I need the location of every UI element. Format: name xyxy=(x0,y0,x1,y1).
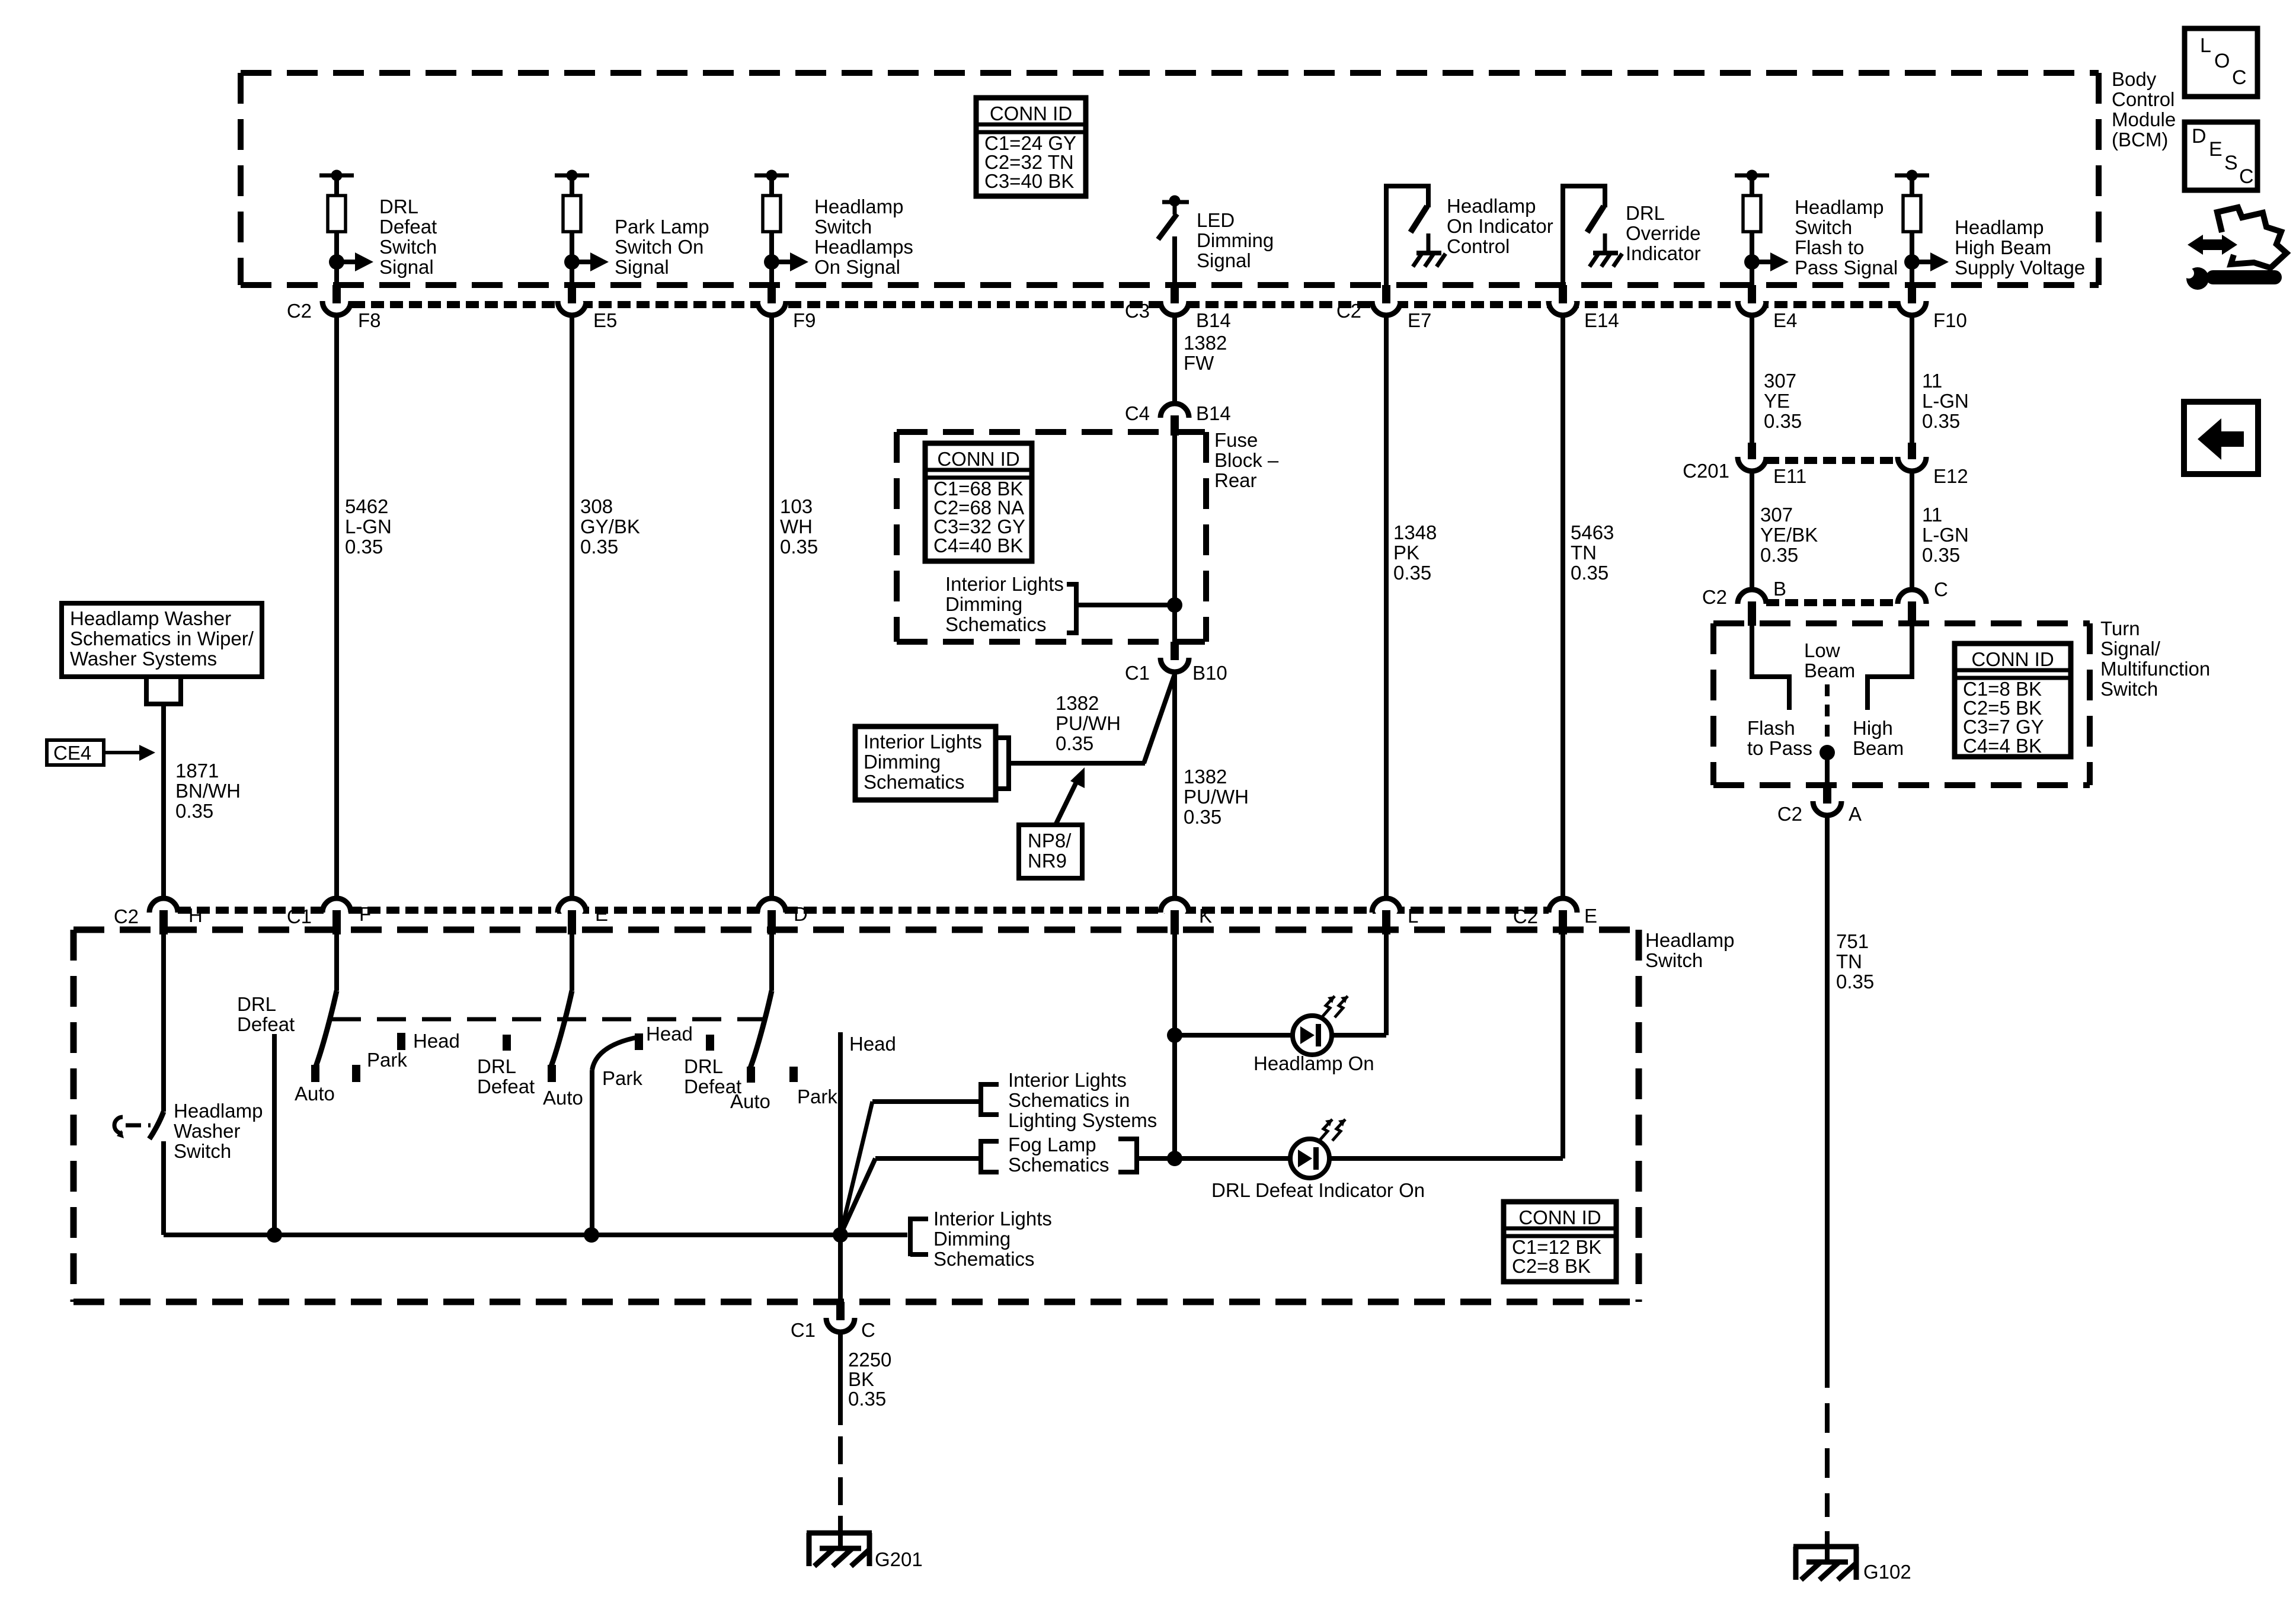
svg-text:Headlamp: Headlamp xyxy=(174,1100,263,1122)
svg-text:E7: E7 xyxy=(1408,309,1431,331)
svg-text:Headlamps: Headlamps xyxy=(814,236,913,258)
svg-text:DRL: DRL xyxy=(684,1055,723,1077)
svg-text:C4=4 BK: C4=4 BK xyxy=(1963,735,2042,757)
svg-text:D: D xyxy=(794,903,808,925)
svg-text:0.35: 0.35 xyxy=(1760,544,1798,566)
svg-text:Lighting Systems: Lighting Systems xyxy=(1008,1109,1157,1131)
svg-text:FW: FW xyxy=(1184,352,1214,374)
svg-text:Dimming: Dimming xyxy=(864,751,941,773)
svg-text:E5: E5 xyxy=(593,309,617,331)
svg-text:Interior Lights: Interior Lights xyxy=(933,1208,1052,1230)
svg-text:0.35: 0.35 xyxy=(848,1388,886,1410)
svg-text:to Pass: to Pass xyxy=(1747,737,1812,759)
svg-text:Switch: Switch xyxy=(1795,216,1852,238)
svg-text:Schematics: Schematics xyxy=(864,771,965,793)
svg-text:C: C xyxy=(2239,165,2254,188)
svg-text:C3: C3 xyxy=(1125,300,1150,322)
svg-text:Override: Override xyxy=(1626,222,1701,244)
svg-text:WH: WH xyxy=(780,516,813,537)
svg-text:0.35: 0.35 xyxy=(1922,544,1960,566)
svg-text:F9: F9 xyxy=(793,309,816,331)
svg-text:Headlamp: Headlamp xyxy=(1795,196,1884,218)
svg-text:0.35: 0.35 xyxy=(1056,732,1093,754)
svg-text:E12: E12 xyxy=(1933,465,1968,487)
svg-text:(BCM): (BCM) xyxy=(2112,129,2168,151)
svg-text:L: L xyxy=(1408,905,1418,927)
svg-text:Auto: Auto xyxy=(730,1090,770,1112)
svg-text:S: S xyxy=(2224,152,2238,174)
svg-text:Multifunction: Multifunction xyxy=(2100,658,2210,680)
svg-text:On Indicator: On Indicator xyxy=(1447,215,1553,237)
svg-text:Head: Head xyxy=(849,1033,896,1055)
svg-text:F: F xyxy=(359,903,371,925)
svg-text:5463: 5463 xyxy=(1571,521,1614,543)
svg-text:Rear: Rear xyxy=(1214,469,1257,491)
svg-text:PU/WH: PU/WH xyxy=(1184,786,1249,808)
svg-text:Switch On: Switch On xyxy=(615,236,703,258)
svg-text:C4=40 BK: C4=40 BK xyxy=(933,534,1023,556)
svg-text:E4: E4 xyxy=(1773,309,1797,331)
svg-text:Schematics: Schematics xyxy=(1008,1154,1109,1176)
svg-text:Switch: Switch xyxy=(1645,949,1703,971)
svg-text:0.35: 0.35 xyxy=(175,800,213,822)
svg-text:C: C xyxy=(2232,66,2247,89)
svg-text:0.35: 0.35 xyxy=(1184,806,1221,828)
svg-text:307: 307 xyxy=(1760,504,1793,526)
svg-text:High: High xyxy=(1853,717,1893,739)
svg-text:Schematics in Wiper/: Schematics in Wiper/ xyxy=(70,628,254,649)
svg-text:Defeat: Defeat xyxy=(477,1076,535,1097)
svg-text:O: O xyxy=(2214,50,2230,72)
svg-text:F10: F10 xyxy=(1933,309,1967,331)
svg-text:E11: E11 xyxy=(1773,465,1806,487)
svg-text:TN: TN xyxy=(1836,950,1862,972)
svg-text:C2: C2 xyxy=(114,905,139,927)
svg-text:11: 11 xyxy=(1922,370,1942,392)
svg-text:Headlamp: Headlamp xyxy=(1645,929,1734,951)
svg-text:L-GN: L-GN xyxy=(1922,390,1969,412)
svg-text:11: 11 xyxy=(1922,504,1942,526)
svg-text:Signal: Signal xyxy=(379,256,434,278)
svg-text:E14: E14 xyxy=(1584,309,1619,331)
svg-text:751: 751 xyxy=(1836,930,1869,952)
svg-text:C2: C2 xyxy=(1336,300,1361,322)
svg-text:PK: PK xyxy=(1393,542,1419,564)
svg-text:E: E xyxy=(1584,905,1597,927)
svg-text:0.35: 0.35 xyxy=(580,536,618,558)
svg-text:LED: LED xyxy=(1197,209,1235,231)
svg-text:On Signal: On Signal xyxy=(814,256,900,278)
svg-text:Flash to: Flash to xyxy=(1795,236,1864,258)
svg-text:Low: Low xyxy=(1804,639,1840,661)
svg-text:2250: 2250 xyxy=(848,1349,891,1371)
svg-text:BN/WH: BN/WH xyxy=(175,780,241,802)
svg-text:GY/BK: GY/BK xyxy=(580,516,640,537)
svg-text:B10: B10 xyxy=(1192,662,1227,684)
svg-text:Beam: Beam xyxy=(1853,737,1904,759)
svg-text:Headlamp On: Headlamp On xyxy=(1253,1052,1374,1074)
svg-text:Control: Control xyxy=(1447,235,1510,257)
svg-text:BK: BK xyxy=(848,1368,874,1390)
svg-text:1348: 1348 xyxy=(1393,521,1437,543)
svg-text:0.35: 0.35 xyxy=(1571,562,1609,584)
svg-text:Control: Control xyxy=(2112,88,2175,110)
svg-text:Dimming: Dimming xyxy=(1197,229,1274,251)
svg-text:CE4: CE4 xyxy=(53,742,91,764)
svg-text:Washer: Washer xyxy=(174,1120,240,1142)
svg-text:G102: G102 xyxy=(1863,1561,1911,1583)
svg-text:L-GN: L-GN xyxy=(345,516,392,537)
svg-text:CONN ID: CONN ID xyxy=(937,448,1019,470)
svg-text:E: E xyxy=(595,903,608,925)
svg-text:Fog Lamp: Fog Lamp xyxy=(1008,1134,1096,1156)
svg-text:Auto: Auto xyxy=(295,1083,335,1105)
svg-text:Auto: Auto xyxy=(543,1087,583,1109)
svg-text:Park: Park xyxy=(602,1067,642,1089)
svg-text:C2: C2 xyxy=(1702,586,1727,608)
svg-text:C: C xyxy=(1934,578,1948,600)
svg-text:C3=40 BK: C3=40 BK xyxy=(984,170,1074,192)
svg-text:0.35: 0.35 xyxy=(1764,410,1802,432)
svg-text:1382: 1382 xyxy=(1056,692,1099,714)
svg-text:DRL Defeat Indicator On: DRL Defeat Indicator On xyxy=(1211,1179,1425,1201)
svg-text:DRL: DRL xyxy=(477,1055,516,1077)
svg-text:Head: Head xyxy=(413,1030,460,1052)
svg-text:Defeat: Defeat xyxy=(379,216,437,238)
svg-text:DRL: DRL xyxy=(237,993,276,1015)
svg-text:A: A xyxy=(1849,803,1862,825)
svg-text:Headlamp: Headlamp xyxy=(1955,216,2044,238)
svg-text:Interior Lights: Interior Lights xyxy=(945,573,1064,595)
svg-text:Beam: Beam xyxy=(1804,660,1855,681)
svg-text:G201: G201 xyxy=(875,1548,923,1570)
svg-text:Headlamp: Headlamp xyxy=(1447,195,1536,217)
svg-text:Park: Park xyxy=(797,1086,837,1108)
svg-text:Defeat: Defeat xyxy=(237,1013,295,1035)
svg-text:Block –: Block – xyxy=(1214,449,1279,471)
svg-text:Switch: Switch xyxy=(814,216,872,238)
svg-text:Signal/: Signal/ xyxy=(2100,638,2161,660)
svg-text:307: 307 xyxy=(1764,370,1796,392)
svg-text:0.35: 0.35 xyxy=(345,536,383,558)
svg-text:Flash: Flash xyxy=(1747,717,1795,739)
svg-text:Module: Module xyxy=(2112,108,2176,130)
svg-text:L-GN: L-GN xyxy=(1922,524,1969,546)
svg-text:NR9: NR9 xyxy=(1028,850,1067,872)
svg-text:D: D xyxy=(2192,125,2207,148)
svg-text:Interior Lights: Interior Lights xyxy=(1008,1069,1127,1091)
svg-text:TN: TN xyxy=(1571,542,1597,564)
svg-text:C4: C4 xyxy=(1125,402,1150,424)
svg-text:B: B xyxy=(1773,578,1786,600)
svg-text:Signal: Signal xyxy=(1197,249,1251,271)
svg-text:C2: C2 xyxy=(287,300,312,322)
svg-text:Switch: Switch xyxy=(174,1140,231,1162)
svg-text:CONN ID: CONN ID xyxy=(1518,1206,1601,1228)
svg-text:Schematics: Schematics xyxy=(933,1248,1035,1270)
svg-text:Interior Lights: Interior Lights xyxy=(864,731,982,753)
svg-text:C1: C1 xyxy=(1125,662,1150,684)
svg-text:Head: Head xyxy=(646,1023,693,1045)
svg-text:DRL: DRL xyxy=(379,196,418,217)
svg-text:0.35: 0.35 xyxy=(780,536,818,558)
svg-text:0.35: 0.35 xyxy=(1836,971,1874,993)
svg-text:High Beam: High Beam xyxy=(1955,236,2051,258)
svg-text:C2: C2 xyxy=(1777,803,1802,825)
svg-text:C201: C201 xyxy=(1683,460,1729,482)
svg-text:C2=8 BK: C2=8 BK xyxy=(1512,1255,1591,1277)
svg-text:Park Lamp: Park Lamp xyxy=(615,216,709,238)
svg-text:Park: Park xyxy=(367,1049,407,1071)
svg-text:Fuse: Fuse xyxy=(1214,429,1258,451)
svg-text:C: C xyxy=(861,1319,875,1341)
svg-text:Supply Voltage: Supply Voltage xyxy=(1955,257,2085,279)
svg-text:Switch: Switch xyxy=(2100,678,2158,700)
svg-text:Headlamp: Headlamp xyxy=(814,196,903,217)
svg-text:Headlamp Washer: Headlamp Washer xyxy=(70,607,231,629)
svg-text:CONN ID: CONN ID xyxy=(990,103,1072,124)
svg-text:Pass Signal: Pass Signal xyxy=(1795,257,1898,279)
svg-text:E: E xyxy=(2209,138,2223,161)
svg-text:Dimming: Dimming xyxy=(933,1228,1011,1250)
svg-text:5462: 5462 xyxy=(345,495,388,517)
svg-text:0.35: 0.35 xyxy=(1393,562,1431,584)
svg-text:0.35: 0.35 xyxy=(1922,410,1960,432)
svg-text:1871: 1871 xyxy=(175,760,219,782)
svg-text:F8: F8 xyxy=(358,309,381,331)
svg-text:C1: C1 xyxy=(287,905,312,927)
svg-text:308: 308 xyxy=(580,495,613,517)
svg-text:B14: B14 xyxy=(1196,402,1231,424)
svg-text:Schematics in: Schematics in xyxy=(1008,1089,1130,1111)
svg-text:L: L xyxy=(2200,34,2211,57)
svg-text:NP8/: NP8/ xyxy=(1028,830,1072,852)
svg-text:1382: 1382 xyxy=(1184,332,1227,354)
svg-text:1382: 1382 xyxy=(1184,766,1227,788)
svg-text:Schematics: Schematics xyxy=(945,613,1047,635)
svg-text:YE/BK: YE/BK xyxy=(1760,524,1818,546)
svg-text:B14: B14 xyxy=(1196,309,1231,331)
svg-text:YE: YE xyxy=(1764,390,1790,412)
svg-text:K: K xyxy=(1199,905,1212,927)
svg-text:Turn: Turn xyxy=(2100,617,2140,639)
svg-text:C1: C1 xyxy=(791,1319,816,1341)
svg-text:Washer Systems: Washer Systems xyxy=(70,648,217,670)
svg-text:DRL: DRL xyxy=(1626,202,1665,224)
svg-text:Signal: Signal xyxy=(615,256,669,278)
svg-text:C2: C2 xyxy=(1513,905,1538,927)
svg-text:CONN ID: CONN ID xyxy=(1971,648,2054,670)
svg-text:PU/WH: PU/WH xyxy=(1056,712,1121,734)
svg-text:103: 103 xyxy=(780,495,813,517)
svg-text:H: H xyxy=(188,904,203,926)
svg-text:Body: Body xyxy=(2112,68,2157,90)
svg-text:Switch: Switch xyxy=(379,236,437,258)
svg-text:Indicator: Indicator xyxy=(1626,242,1701,264)
svg-text:Dimming: Dimming xyxy=(945,593,1022,615)
